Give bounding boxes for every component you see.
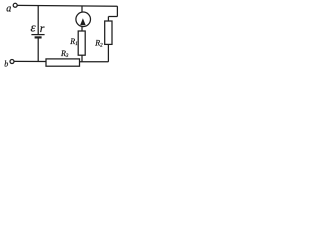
terminal b bbox=[10, 60, 14, 64]
terminal a bbox=[13, 3, 17, 7]
svg-text:a: a bbox=[6, 4, 11, 15]
battery short plate bbox=[35, 36, 42, 38]
wire bottom right bbox=[80, 61, 109, 63]
wire right jog bbox=[108, 16, 117, 18]
svg-text:ε: ε bbox=[31, 20, 37, 35]
svg-text:b: b bbox=[4, 60, 8, 69]
wire stub to R2 top bbox=[107, 17, 109, 22]
galvanometer needle bbox=[80, 18, 86, 25]
wire battery branch bottom bbox=[37, 39, 39, 62]
galvanometer G bbox=[76, 12, 91, 27]
resistor R1 bbox=[78, 31, 85, 55]
resistor R horizontal bbox=[46, 59, 80, 66]
wire stub R1 bottom bbox=[81, 55, 83, 62]
wire battery branch top bbox=[37, 6, 39, 35]
wire R2 bottom bbox=[107, 44, 109, 61]
wire top bbox=[17, 4, 117, 7]
wire stub circle to R1 bbox=[81, 27, 83, 31]
wire bottom left bbox=[14, 60, 46, 62]
svg-text:r: r bbox=[40, 21, 45, 35]
wire stub meter top bbox=[81, 6, 83, 12]
resistor R2 bbox=[105, 21, 112, 44]
battery long plate bbox=[31, 34, 44, 36]
wire right side drop bbox=[116, 6, 118, 16]
